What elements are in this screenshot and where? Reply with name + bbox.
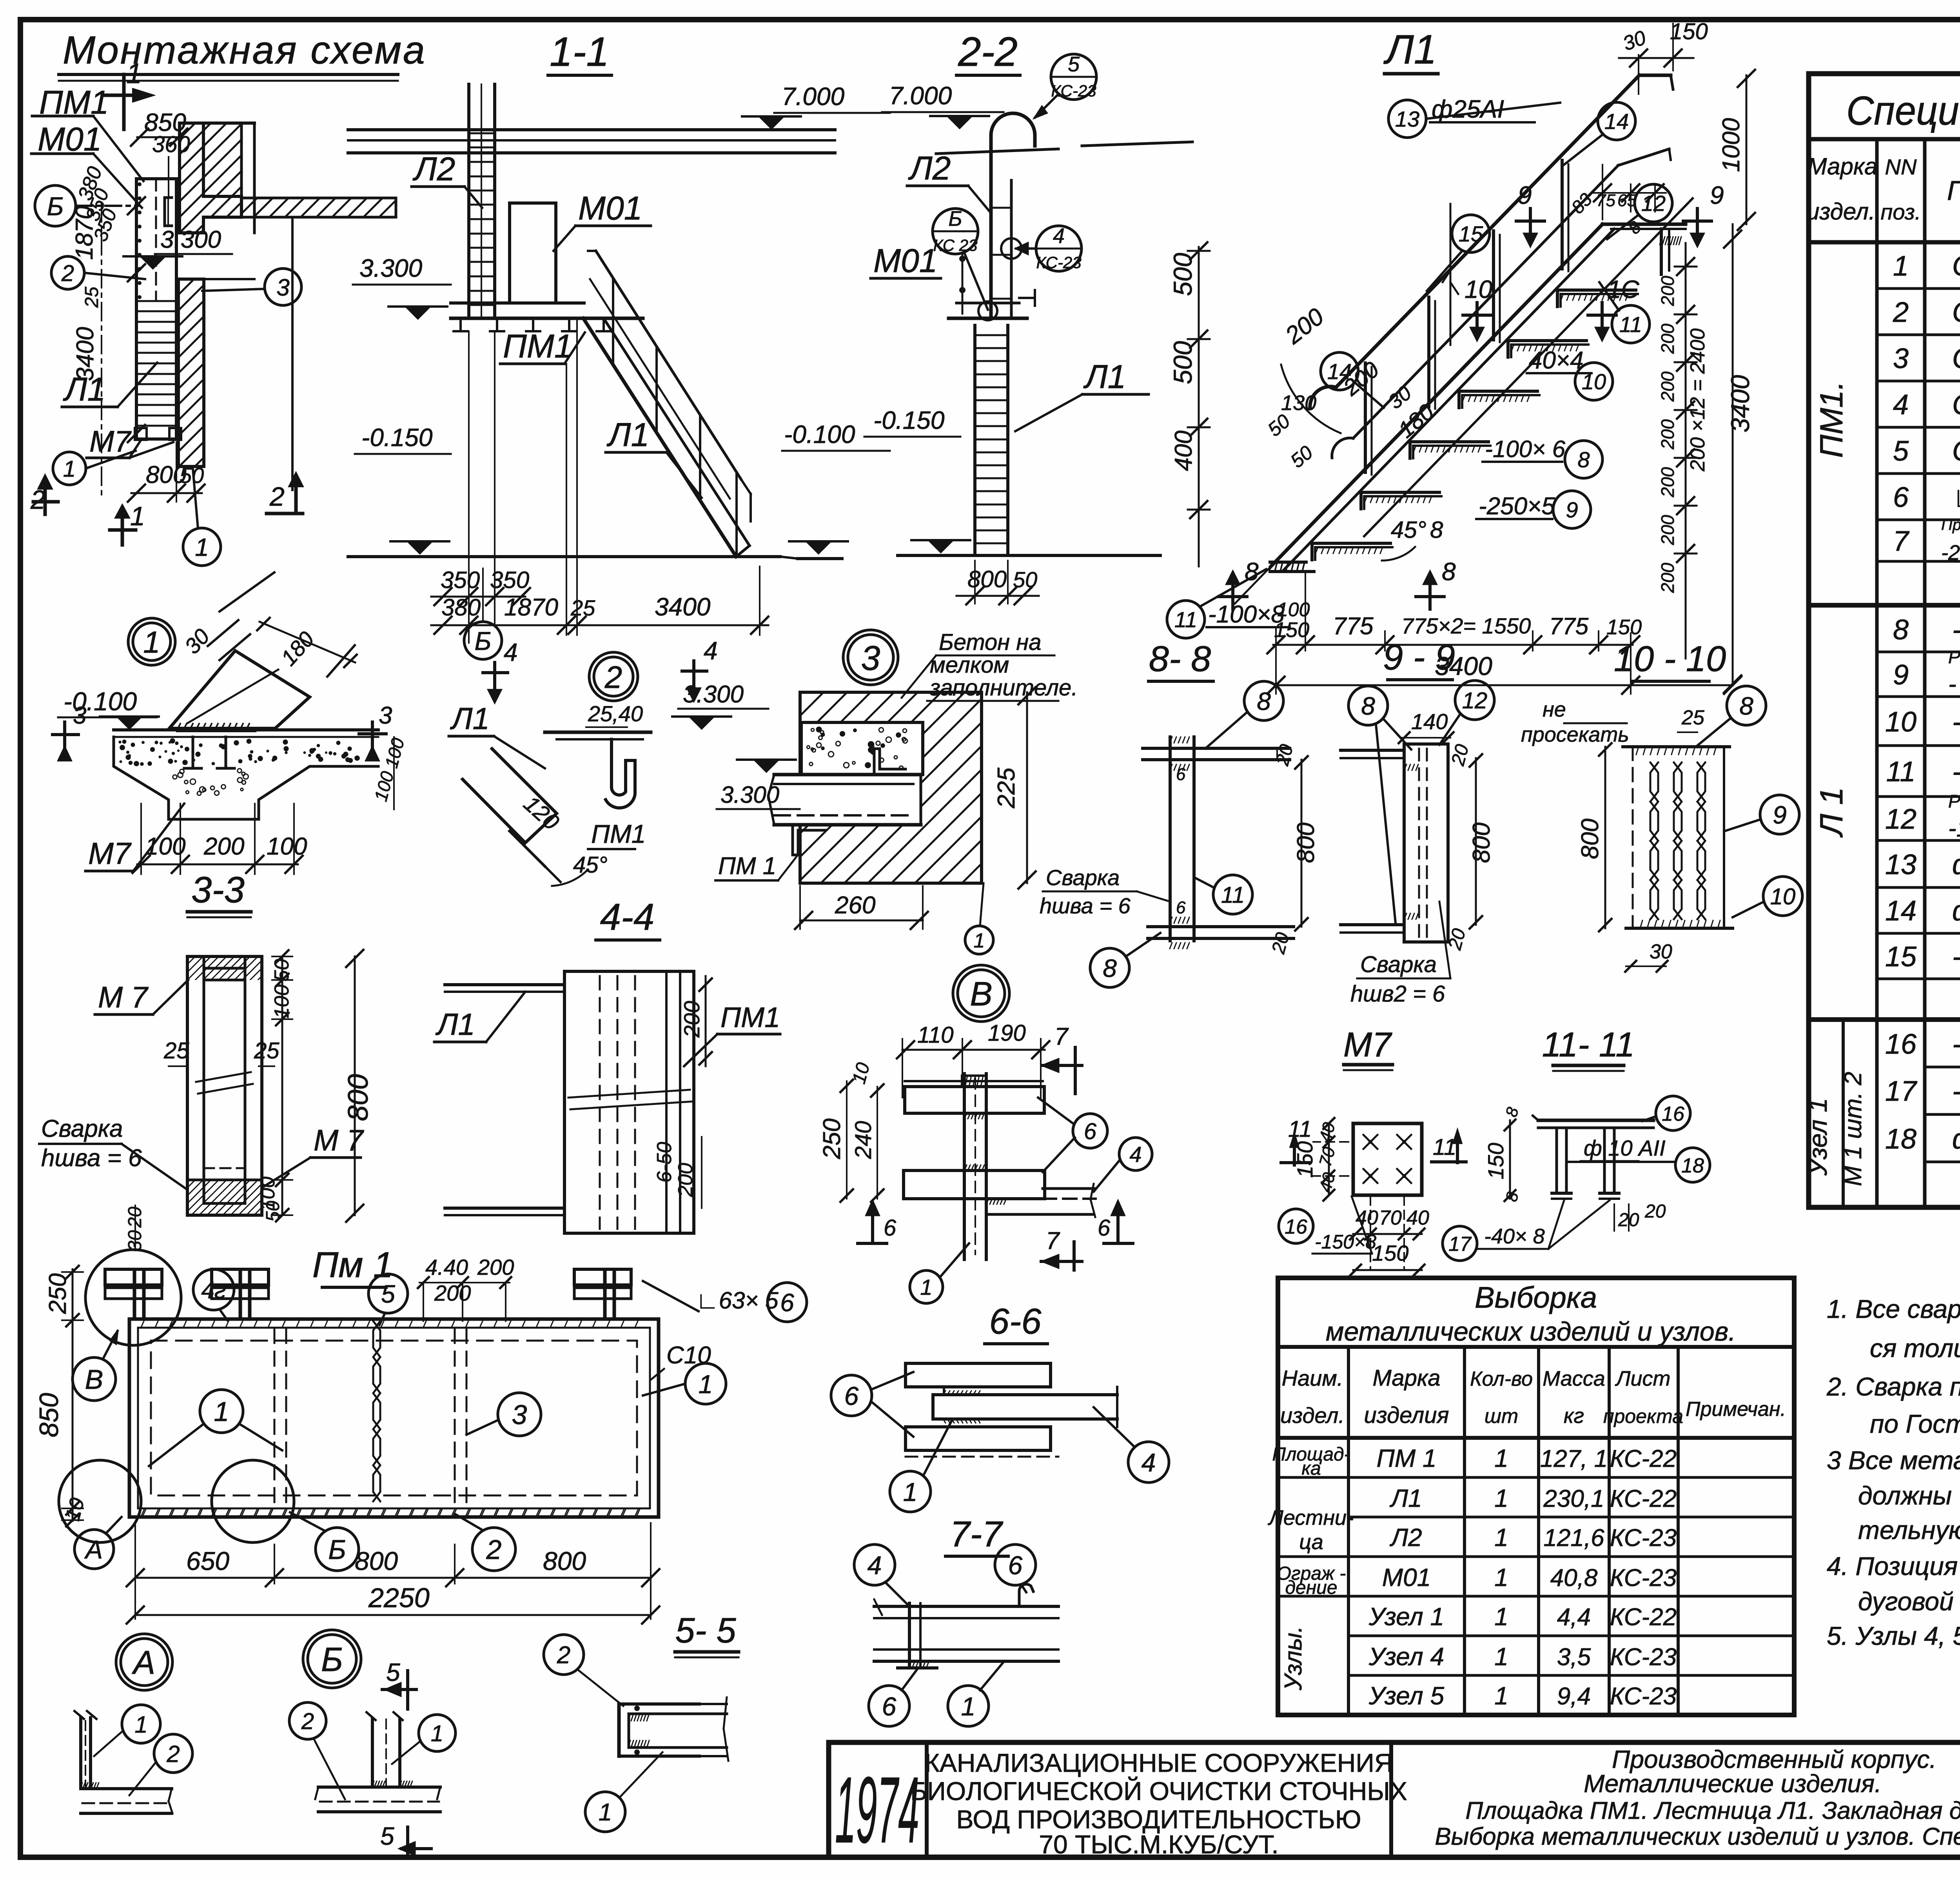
detail 1: section mark 3 (right) (371, 722, 374, 747)
svg-text:поз.: поз. (1881, 200, 1921, 224)
svg-text:шт: шт (1485, 1405, 1518, 1428)
svg-text:ся толщиной hшва = 4 мм.: ся толщиной hшва = 4 мм. (1870, 1334, 1960, 1363)
svg-text:дение: дение (1285, 1577, 1337, 1598)
svg-text:1: 1 (214, 1396, 229, 1427)
svg-text:C N10: C N10 (1952, 436, 1960, 467)
ПМ1 plan: big circle highlight bottom-mid (212, 1460, 294, 1542)
ПМ1 plan: column mark Б (316, 1528, 359, 1571)
svg-text:1: 1 (599, 1799, 612, 1826)
node В: circle mark (953, 965, 1009, 1022)
ПМ1 plan: inner dashed rect (151, 1341, 637, 1495)
ПМ1 plan: T-post left (133, 1272, 136, 1319)
svg-text:ВОД ПРОИЗВОДИТЕЛЬНОСТЬЮ: ВОД ПРОИЗВОДИТЕЛЬНОСТЬЮ (956, 1805, 1361, 1834)
Л1: base plate bottom (1270, 561, 1306, 564)
svg-text:190: 190 (988, 1020, 1026, 1046)
node В: rail continuation right (1043, 1187, 1094, 1190)
section 6-6: callout 4 (1128, 1442, 1169, 1483)
svg-text:4: 4 (1142, 1448, 1156, 1477)
svg-text:М7: М7 (88, 836, 132, 871)
svg-text:Пм 1: Пм 1 (312, 1245, 393, 1285)
svg-text:1: 1 (1494, 1484, 1508, 1512)
svg-text:16: 16 (1285, 1216, 1307, 1238)
svg-text:6-6: 6-6 (989, 1301, 1042, 1341)
svg-text:1: 1 (195, 533, 209, 561)
svg-text:5: 5 (380, 1822, 394, 1850)
svg-text:17: 17 (1448, 1233, 1472, 1256)
svg-text:2250: 2250 (368, 1582, 430, 1613)
svg-text:2: 2 (557, 1642, 570, 1669)
plan view: axis dash-dot line (101, 204, 102, 495)
svg-text:2-2: 2-2 (958, 29, 1018, 75)
svg-text:Бетон на: Бетон на (939, 630, 1041, 655)
svg-text:NN: NN (1885, 154, 1917, 179)
svg-text:-0.100: -0.100 (784, 420, 855, 448)
section 10-10: callout 9 (1760, 795, 1799, 834)
svg-text:Профиль: Профиль (1947, 175, 1960, 206)
svg-text:14: 14 (1885, 895, 1916, 927)
Л1: right vertical dim 200x12=2400 and 3400 (1685, 243, 1687, 659)
svg-text:Б: Б (948, 207, 962, 230)
svg-text:3: 3 (379, 702, 392, 729)
svg-text:7.000: 7.000 (782, 82, 845, 111)
svg-text:Марка: Марка (1372, 1365, 1440, 1391)
svg-text:Примечан.: Примечан. (1686, 1398, 1786, 1421)
svg-text:4г: 4г (201, 1277, 226, 1303)
section 7-7: small angle top right (1019, 1584, 1033, 1606)
section 9-9: bottom-left flange bar (1341, 923, 1404, 926)
detail 3: concrete pocket with dots (801, 722, 923, 775)
svg-text:ка: ка (1301, 1458, 1321, 1479)
svg-text:Лестни-: Лестни- (1268, 1506, 1354, 1530)
svg-text:М01: М01 (578, 190, 642, 227)
svg-text:9: 9 (1773, 801, 1787, 829)
svg-text:Л2: Л2 (1389, 1523, 1422, 1552)
plan view: callout 2 (51, 256, 84, 289)
svg-text:30: 30 (1650, 940, 1672, 963)
detail 2: circle mark (589, 652, 638, 701)
svg-text:КС-23: КС-23 (1610, 1524, 1677, 1552)
svg-text:-0.150: -0.150 (361, 423, 433, 452)
section 2-2: ladder Л2 with hooked top (991, 113, 1035, 165)
detail 3: small angle in pocket (874, 749, 906, 775)
svg-text:40×4: 40×4 (1529, 347, 1584, 374)
svg-text:1С: 1С (1607, 275, 1640, 303)
section 3-3: dim 800 (right, large) (354, 956, 356, 1215)
node А: callout 1 (122, 1705, 160, 1743)
svg-text:121,6: 121,6 (1543, 1524, 1604, 1552)
section 1-1: top floor beam lines (348, 128, 835, 131)
node В: middle horizontal bar (904, 1170, 1045, 1199)
svg-text:ПМ 1: ПМ 1 (718, 853, 776, 880)
section 1-1: ladder Л2 rungs (469, 132, 495, 134)
svg-text:10: 10 (1465, 275, 1493, 303)
svg-text:5. Узлы 4, 5, 6 смотри: 5. Узлы 4, 5, 6 смотри чертеж КС- 23 (1827, 1621, 1960, 1650)
svg-text:9,4: 9,4 (1557, 1683, 1591, 1710)
svg-text:Л2: Л2 (908, 150, 951, 187)
svg-text:6: 6 (1176, 898, 1186, 917)
svg-text:Узел 5: Узел 5 (1368, 1682, 1445, 1710)
section 9-9: vertical channel (1404, 744, 1448, 942)
svg-text:110: 110 (917, 1022, 953, 1048)
Л1: misc guide lines top (1602, 165, 1603, 220)
svg-text:1974: 1974 (835, 1757, 919, 1862)
detail 1: diagonal stringer member (169, 651, 310, 728)
node В: callout 1 (910, 1270, 943, 1303)
svg-text:18: 18 (1885, 1123, 1916, 1155)
svg-text:9: 9 (1566, 497, 1578, 522)
section 6-6: middle tongue with serrations (933, 1393, 1117, 1396)
Л1: handrail ф25АI top (1336, 75, 1639, 387)
svg-text:Металлические изделия.: Металлические изделия. (1584, 1769, 1882, 1798)
svg-text:8: 8 (1577, 447, 1590, 472)
svg-text:5: 5 (1068, 53, 1080, 76)
svg-text:мелком: мелком (930, 652, 1009, 678)
svg-text:45°: 45° (1391, 517, 1426, 543)
svg-text:10: 10 (1770, 884, 1796, 909)
svg-text:1000: 1000 (1718, 118, 1745, 172)
svg-text:200: 200 (674, 1163, 697, 1198)
node А: angle sketch (79, 1718, 82, 1789)
svg-text:9 - 9: 9 - 9 (1383, 637, 1455, 677)
svg-text:250: 250 (44, 1273, 71, 1314)
М7 detail: left dims 150 40 70 40 (1328, 1123, 1330, 1195)
ПМ1 plan: callout 1 (inside) (200, 1390, 243, 1433)
Л1: callout 12 (1635, 184, 1672, 222)
svg-text:Л1: Л1 (1383, 27, 1437, 73)
svg-text:3.300: 3.300 (683, 681, 744, 708)
detail 2: section marks 4 (493, 662, 496, 690)
section 10-10: serrations top/bottom (1636, 747, 1639, 755)
svg-text:ф10АΙΙ: ф10АΙΙ (1952, 1123, 1960, 1155)
svg-text:6: 6 (882, 1692, 897, 1721)
Л1: callout 15 (1452, 215, 1490, 252)
svg-text:4. Позиция 18 привариваетс: 4. Позиция 18 приваривается к позициям 1… (1827, 1552, 1960, 1581)
svg-text:6: 6 (1084, 1119, 1097, 1144)
section 7-7: left post with base (908, 1603, 911, 1666)
svg-text:тельную записку проекта: тельную записку проекта – Альбом Ι. (1858, 1515, 1960, 1544)
Л1: section mark 10 (left) (1475, 303, 1479, 328)
Л1: handrail middle rail (1353, 165, 1618, 438)
svg-text:40,8: 40,8 (1550, 1564, 1598, 1591)
ПМ1 plan: T-post right (603, 1272, 607, 1319)
svg-text:14: 14 (1604, 109, 1629, 134)
svg-text:2: 2 (1893, 297, 1909, 328)
spec table: row lines group Узел (1925, 1066, 1960, 1069)
svg-text:9: 9 (1710, 181, 1724, 209)
svg-text:3 Все металлические к: 3 Все металлические конструкции и сварны… (1827, 1446, 1960, 1475)
svg-text:Рифл. ст.: Рифл. ст. (1948, 791, 1960, 811)
svg-text:ПМ1.: ПМ1. (1814, 381, 1849, 458)
svg-text:11: 11 (1619, 312, 1642, 337)
svg-text:БИОЛОГИЧЕСКОЙ ОЧИСТКИ СТОЧНЫХ: БИОЛОГИЧЕСКОЙ ОЧИСТКИ СТОЧНЫХ (910, 1776, 1407, 1806)
svg-text:5- 5: 5- 5 (675, 1611, 736, 1650)
svg-text:16: 16 (1885, 1029, 1917, 1060)
section 9-9: callout 12 (1455, 681, 1494, 720)
ПМ1 plan: callout 5 (top) (368, 1274, 408, 1313)
svg-text:Б: Б (47, 192, 64, 221)
svg-text:-- 40×4: -- 40×4 (1952, 941, 1960, 973)
svg-text:1: 1 (920, 1275, 932, 1299)
svg-text:25,40: 25,40 (588, 701, 643, 726)
svg-text:500: 500 (1168, 253, 1197, 296)
svg-text:8: 8 (1893, 614, 1909, 646)
plan view: platform edge marks (138, 182, 142, 186)
node В: callout 4 (1119, 1138, 1152, 1170)
section 8-8: callout 8 top (1244, 681, 1283, 720)
svg-text:Сварка: Сварка (41, 1115, 123, 1142)
detail 1: embedded plate М7 with studs (178, 728, 254, 732)
svg-text:50: 50 (180, 463, 204, 488)
section 10-10: bottom bar (1626, 927, 1733, 930)
выборка table: col1 group separators (1278, 1476, 1348, 1479)
spec table: outer border (1809, 74, 1960, 1207)
svg-text:дуговой сваркой втавр: дуговой сваркой втавр под слоем флюса. (1858, 1587, 1960, 1616)
svg-text:2. Сварка производится: 2. Сварка производится электродами типа … (1826, 1372, 1960, 1401)
section 10-10: callout 10 (1763, 876, 1802, 916)
svg-text:150: 150 (1483, 1143, 1508, 1179)
svg-text:ПМ1: ПМ1 (720, 1002, 780, 1033)
svg-text:-0.150: -0.150 (873, 406, 945, 434)
svg-text:6: 6 (1176, 765, 1186, 784)
svg-text:1. Все сварные швы, к: 1. Все сварные швы, кроме оговоренных, в… (1827, 1294, 1960, 1323)
detail 3: angle bracket below slab (793, 825, 825, 855)
svg-text:260: 260 (835, 892, 875, 919)
svg-text:800: 800 (1577, 818, 1604, 859)
svg-text:775×2= 1550: 775×2= 1550 (1401, 613, 1531, 638)
plan view: stair well plan (stringers and rungs) (136, 179, 176, 439)
svg-text:3-3: 3-3 (191, 869, 245, 910)
svg-text:13: 13 (1885, 849, 1916, 880)
svg-text:1: 1 (1893, 250, 1909, 282)
svg-text:250: 250 (818, 1118, 846, 1159)
section 8-8: bottom flange (1148, 925, 1294, 928)
Л1: left vertical dim chain 500/500/400 (1198, 247, 1200, 566)
svg-text:1: 1 (130, 501, 145, 531)
detail 1: floor slab with concrete texture (114, 728, 378, 731)
svg-text:3: 3 (512, 1399, 527, 1430)
section 4-4: rails sticking left (445, 983, 564, 986)
svg-text:17: 17 (1885, 1076, 1918, 1107)
section 8-8: weld serrations web (1170, 737, 1172, 743)
svg-text:hшва = 6: hшва = 6 (1040, 893, 1131, 918)
svg-text:C N10: C N10 (1952, 297, 1960, 328)
svg-text:1: 1 (431, 1721, 443, 1746)
section 10-10: expanded metal mesh (1648, 760, 1650, 762)
section 7-7: callout 6 bottom (869, 1686, 909, 1726)
section 2-2: circle 4/КС-23 (1036, 226, 1082, 271)
svg-text:КС-23: КС-23 (1610, 1683, 1677, 1710)
svg-text:150: 150 (1292, 1141, 1317, 1178)
svg-text:-40×4: -40×4 (1952, 706, 1960, 738)
section 2-2: platform stub (956, 302, 1019, 305)
М7 detail: stud marks (1363, 1135, 1377, 1149)
svg-text:13: 13 (1395, 107, 1419, 131)
svg-text:8: 8 (1257, 687, 1271, 715)
svg-text:КС-23: КС-23 (1610, 1564, 1677, 1591)
ПМ1 plan: callout 3 (inside) (498, 1393, 541, 1436)
svg-text:кг: кг (1564, 1404, 1584, 1428)
svg-text:7.000: 7.000 (889, 82, 952, 110)
svg-text:ПМ1: ПМ1 (591, 819, 646, 848)
section 6-6: callout 1 (890, 1471, 931, 1512)
svg-text:3400: 3400 (72, 327, 99, 381)
node Б: callout 1 (419, 1715, 456, 1751)
section 9-9: top-left flange bar (1341, 749, 1404, 752)
svg-text:12: 12 (1462, 688, 1488, 713)
node Б: circle mark (303, 1630, 361, 1688)
svg-text:6: 6 (1893, 482, 1909, 513)
svg-text:200: 200 (1657, 323, 1678, 354)
detail 3: floor slab from left (774, 775, 921, 825)
plan view: callout 1 (bottom) (183, 528, 221, 566)
plan view: column mark Б (35, 185, 76, 226)
svg-text:1: 1 (903, 1477, 918, 1506)
node В: section marks 6 bottom (871, 1215, 874, 1243)
svg-text:4.40: 4.40 (425, 1255, 468, 1279)
node Б: callout 2 (289, 1702, 326, 1739)
svg-text:ца: ца (1299, 1530, 1323, 1554)
svg-text:11: 11 (1886, 756, 1916, 788)
svg-text:5: 5 (381, 1280, 395, 1308)
svg-text:Л2: Л2 (412, 151, 455, 187)
spec table: Узел group col1 split (1842, 1020, 1845, 1207)
svg-text:издел.: издел. (1806, 198, 1875, 225)
svg-text:7: 7 (1893, 526, 1910, 557)
svg-text:КС 23: КС 23 (933, 236, 978, 254)
Л1: rail posts (1364, 363, 1367, 472)
node В: top horizontal bar (905, 1080, 1043, 1082)
section 1-1: ladder Л2 rails (467, 84, 470, 318)
svg-text:Масса: Масса (1543, 1367, 1605, 1390)
Л1: section mark 9 (left) (1529, 209, 1532, 234)
node В: callout 6 (1073, 1114, 1107, 1148)
ПМ1 plan: column mark А (74, 1530, 114, 1569)
section 8-8: web (1169, 737, 1172, 941)
svg-text:1: 1 (974, 929, 985, 952)
svg-text:500: 500 (1168, 341, 1197, 384)
svg-text:Л1: Л1 (450, 701, 490, 736)
выборка table: header separator (1278, 1436, 1794, 1440)
svg-text:25: 25 (254, 1038, 279, 1063)
plan view: М7 embedded plates (plan) (135, 428, 147, 440)
svg-text:2: 2 (30, 485, 45, 515)
svg-text:6: 6 (1008, 1551, 1023, 1580)
svg-text:4: 4 (1129, 1142, 1142, 1167)
svg-text:КАНАЛИЗАЦИОННЫЕ СООРУЖЕНИЯ: КАНАЛИЗАЦИОННЫЕ СООРУЖЕНИЯ (924, 1748, 1393, 1777)
svg-text:- 250×5: - 250×5 (1948, 671, 1960, 698)
svg-text:150: 150 (1372, 1241, 1408, 1265)
svg-text:Л 1: Л 1 (1814, 787, 1849, 838)
svg-text:ф 10 АΙΙ: ф 10 АΙΙ (1584, 1136, 1666, 1160)
svg-text:3,5: 3,5 (1557, 1644, 1591, 1671)
svg-text:6: 6 (1098, 1215, 1111, 1241)
spec table: vertical column lines (1875, 139, 1879, 1207)
detail 3: callout 1 below (965, 926, 993, 954)
section 5-5: callout 2 (544, 1635, 584, 1675)
svg-text:М 7: М 7 (314, 1124, 364, 1157)
section 4-4: platform edge plate (plan) (564, 971, 694, 1233)
svg-text:C N10: C N10 (1952, 389, 1960, 421)
svg-text:140: 140 (1411, 709, 1448, 734)
svg-text:5: 5 (1893, 436, 1909, 467)
svg-text:1: 1 (961, 1692, 976, 1721)
svg-text:8: 8 (1103, 954, 1117, 982)
svg-text:200 ×12 = 2400: 200 ×12 = 2400 (1686, 328, 1709, 472)
svg-text:1870: 1870 (504, 594, 558, 621)
plan view: section mark 1 (bottom) (121, 512, 124, 545)
detail 3: wall block hatched (800, 692, 982, 883)
svg-text:заполнителе.: заполнителе. (929, 675, 1078, 700)
spec table: row lines group Л1 (1877, 651, 1960, 653)
svg-text:М01: М01 (1382, 1563, 1431, 1591)
М7 detail: dashed axes (1370, 1196, 1371, 1270)
svg-text:20: 20 (1644, 1201, 1666, 1222)
svg-text:100: 100 (270, 985, 293, 1019)
section 1-1: fence М01 (elevation) (510, 203, 556, 303)
svg-text:4,4: 4,4 (1557, 1604, 1591, 1631)
svg-text:380: 380 (441, 594, 481, 621)
Л1: right vertical dim 1000 (1746, 75, 1748, 224)
svg-text:10: 10 (1885, 706, 1916, 738)
svg-text:4: 4 (504, 638, 518, 666)
node Б: base with post (318, 1786, 440, 1789)
svg-text:Л1: Л1 (1083, 358, 1126, 395)
svg-text:70 ТЫС.М.КУБ/СУТ.: 70 ТЫС.М.КУБ/СУТ. (1039, 1830, 1278, 1859)
svg-text:КС-23: КС-23 (1051, 82, 1096, 100)
svg-text:11: 11 (1221, 882, 1245, 908)
svg-text:-2195 ×5: -2195 ×5 (1941, 541, 1960, 564)
svg-text:800: 800 (355, 1546, 398, 1575)
ПМ1 plan: big circle highlight top-left (85, 1250, 181, 1345)
svg-text:11- 11: 11- 11 (1542, 1025, 1635, 1064)
svg-text:∟63× 5: ∟63× 5 (696, 1287, 779, 1314)
svg-text:3: 3 (276, 274, 289, 301)
svg-text:2: 2 (166, 1741, 180, 1767)
ПМ1 plan: callout 4г (top) (193, 1269, 234, 1310)
svg-text:25: 25 (1681, 706, 1705, 729)
выборка table: row lines (1348, 1476, 1794, 1479)
section 4-4: break marks (568, 1090, 690, 1098)
svg-text:Б: Б (328, 1534, 346, 1565)
detail 1: concrete dots (175, 741, 178, 745)
Л1: section mark 8 (left bottom) (1231, 584, 1234, 609)
svg-text:изделия: изделия (1364, 1403, 1449, 1428)
svg-text:4: 4 (1893, 389, 1909, 421)
section 3-3: right dim chain 50 100 800 100 50 (281, 956, 283, 1215)
svg-text:М01: М01 (38, 121, 102, 158)
svg-text:-40×8: -40×8 (1952, 1076, 1960, 1107)
svg-text:4: 4 (704, 637, 718, 665)
ПМ1 plan: big circle highlight bottom-left (59, 1460, 141, 1542)
plan view: wall top edge lines (180, 122, 254, 125)
svg-text:КС-22: КС-22 (1610, 1445, 1677, 1472)
svg-text:400: 400 (1170, 430, 1197, 471)
section 7-7: callout 1 bottom (948, 1686, 989, 1726)
svg-text:200: 200 (1657, 515, 1678, 545)
svg-text:М01: М01 (873, 242, 937, 279)
выборка table: outer border (1278, 1278, 1794, 1715)
section 6-6: callout 6 (831, 1375, 872, 1416)
section 10-10: top bar (1623, 745, 1730, 748)
section 3-3: top М7 plate hatched (204, 956, 245, 980)
section 2-2: dim 800 50 (974, 561, 976, 604)
svg-text:6: 6 (844, 1381, 859, 1410)
svg-text:Кол-во: Кол-во (1470, 1368, 1533, 1390)
node А: callout 2 (154, 1734, 192, 1773)
svg-text:8- 8: 8- 8 (1149, 639, 1211, 679)
section 11-11: left dims 150 8 8 (1509, 1120, 1511, 1199)
title block: outer and dividers (829, 1740, 1960, 1745)
